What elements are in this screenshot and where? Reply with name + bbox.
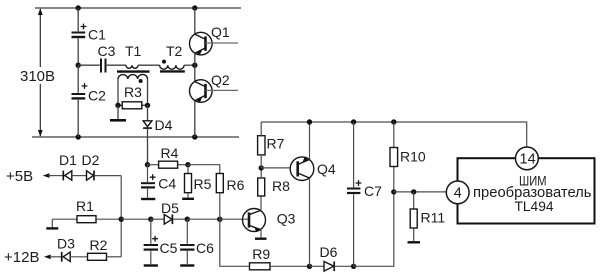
ground at R5 <box>182 198 194 200</box>
transformer T2 core <box>160 70 185 72</box>
resistor R2 <box>88 253 122 260</box>
wire main row to Q3 base <box>220 218 249 220</box>
ground at T1 secondary <box>110 105 126 120</box>
transistor Q3 <box>243 196 266 237</box>
ground at R1 <box>46 219 58 228</box>
resistor R3 <box>118 102 148 109</box>
svg-text:D1: D1 <box>59 152 77 168</box>
capacitor C4 <box>141 165 156 198</box>
svg-text:Q2: Q2 <box>211 72 230 88</box>
pin circle 14 <box>516 147 539 170</box>
svg-text:C1: C1 <box>88 27 106 43</box>
wire top right rail <box>261 122 527 147</box>
pin circle 4 <box>446 181 469 204</box>
svg-text:D2: D2 <box>82 152 100 168</box>
svg-text:R9: R9 <box>252 246 270 262</box>
svg-text:D3: D3 <box>57 236 75 252</box>
diode D6 <box>310 262 354 272</box>
svg-text:R3: R3 <box>124 84 142 100</box>
capacitor C2 <box>72 65 88 137</box>
resistor R10 <box>390 122 398 192</box>
node C1/C2/C3 <box>76 62 81 67</box>
svg-text:C6: C6 <box>196 240 214 256</box>
transformer T1 core <box>117 70 150 72</box>
resistor R1 <box>52 216 121 223</box>
resistor R9 <box>250 263 310 270</box>
node bottom rail / C7 <box>351 264 356 269</box>
resistor R11 <box>410 192 417 241</box>
svg-text:T1: T1 <box>125 43 142 59</box>
wire +12V arrow <box>44 255 62 260</box>
node R7/R8/Q4 base <box>259 165 264 170</box>
svg-text:R4: R4 <box>161 145 179 161</box>
ground at Q3 emitter <box>255 237 267 239</box>
capacitor C5 <box>144 219 158 264</box>
svg-text:R1: R1 <box>76 198 94 214</box>
node R3 right <box>145 103 150 108</box>
svg-text:R8: R8 <box>272 178 290 194</box>
diode D4 <box>143 105 152 164</box>
ground at C4 <box>141 198 155 200</box>
ground at R11 <box>408 241 421 243</box>
310V dimension arrow line <box>38 8 43 136</box>
wire R4 node to R6 top <box>188 165 220 174</box>
wire +5V rail down to R1/R2 <box>120 176 122 257</box>
wire top rail 310V <box>35 7 241 9</box>
svg-text:4: 4 <box>454 186 462 202</box>
wire bottom rail 310V <box>32 136 239 138</box>
node top rail / Q4 emitter <box>307 119 312 124</box>
transformer T2 winding <box>160 65 185 69</box>
wire +5V arrow <box>43 173 63 178</box>
TL494 block box <box>458 158 595 223</box>
diode D5 <box>151 215 188 225</box>
ground at C6 <box>180 264 194 266</box>
svg-text:R2: R2 <box>90 237 108 253</box>
transistor Q2 <box>190 65 239 137</box>
node C5 <box>148 217 153 222</box>
svg-text:R11: R11 <box>421 210 446 226</box>
svg-text:R6: R6 <box>227 177 245 193</box>
wire R10 node to pin4 <box>394 191 447 193</box>
svg-text:R7: R7 <box>267 136 285 152</box>
wire T2 to Q1/Q2 node <box>184 64 195 66</box>
T2 polarity dot <box>162 60 166 64</box>
node T2 / Q1 emitter / Q2 collector <box>192 62 197 67</box>
T1 polarity dot <box>139 79 143 83</box>
capacitor C1 <box>72 8 87 65</box>
node bottom rail / Q4 collector <box>307 264 312 269</box>
transformer T1 secondary <box>118 74 148 105</box>
svg-text:R10: R10 <box>400 149 426 165</box>
svg-text:C7: C7 <box>364 183 382 199</box>
wire bottom rail C7 to R10 column <box>354 192 394 266</box>
resistor R8 <box>258 168 265 196</box>
node R4/C4/D4 <box>145 162 150 167</box>
svg-text:T2: T2 <box>166 43 183 59</box>
node top rail / R10 <box>391 119 396 124</box>
svg-text:+5В: +5В <box>6 168 33 185</box>
transistor Q1 <box>190 8 239 65</box>
capacitor C7 <box>347 122 361 266</box>
diode D3 <box>62 252 88 262</box>
node R3 left <box>115 103 120 108</box>
svg-text:C4: C4 <box>158 176 176 192</box>
svg-text:D6: D6 <box>320 244 338 260</box>
value label 310V <box>18 67 56 85</box>
transistor Q4 <box>261 122 314 266</box>
transformer T1 primary <box>126 65 138 68</box>
wire R6 node down to bottom rail <box>220 219 250 266</box>
node C6 <box>185 217 190 222</box>
node top rail / C7 <box>351 119 356 124</box>
node top rail / Q1 collector <box>192 5 197 10</box>
node bottom rail / Q2 emitter <box>192 134 197 139</box>
svg-text:Q1: Q1 <box>211 24 230 40</box>
resistor R7 <box>258 122 265 168</box>
node top rail / C1 <box>76 5 81 10</box>
svg-text:C5: C5 <box>160 240 178 256</box>
node R4/R5 <box>185 162 190 167</box>
node R11 <box>411 189 416 194</box>
resistor R4 <box>148 161 189 168</box>
svg-text:310В: 310В <box>20 68 55 85</box>
wire main row to C5 <box>121 218 151 220</box>
svg-text:C3: C3 <box>98 43 116 59</box>
svg-text:D4: D4 <box>155 117 173 133</box>
ground at C5 <box>144 264 158 266</box>
node R6 / main row <box>217 217 222 222</box>
diode D2 <box>87 171 122 181</box>
capacitor C3 <box>78 59 126 73</box>
svg-text:Q4: Q4 <box>317 161 336 177</box>
svg-text:D5: D5 <box>161 200 179 216</box>
wire T1 to T2 <box>138 64 160 66</box>
node R10/R11 row left <box>391 189 396 194</box>
node R1 / +5V rail <box>119 217 124 222</box>
resistor R5 <box>185 165 192 198</box>
resistor R6 <box>216 174 223 220</box>
diode D1 <box>63 171 86 181</box>
wire main row C6 to R6 <box>187 218 220 220</box>
svg-text:R5: R5 <box>194 176 212 192</box>
capacitor C6 <box>180 219 194 264</box>
svg-text:C2: C2 <box>88 88 106 104</box>
node bottom rail / C2 <box>76 134 81 139</box>
svg-text:14: 14 <box>520 152 536 168</box>
svg-text:TL494: TL494 <box>515 198 554 214</box>
svg-text:Q3: Q3 <box>277 210 296 226</box>
svg-text:+12В: +12В <box>4 249 39 266</box>
